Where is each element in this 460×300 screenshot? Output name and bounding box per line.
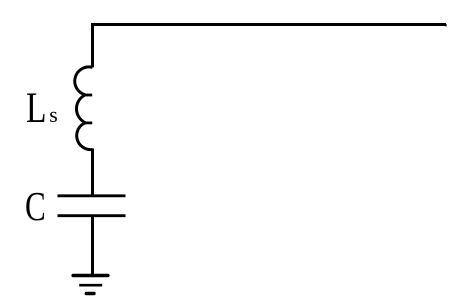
ground bar 2 [79, 284, 102, 287]
inductor Ls coil bump 1 [75, 67, 93, 95]
inductor coil tick 2 [85, 122, 92, 125]
label C [25, 186, 46, 227]
capacitor C bottom plate [58, 214, 126, 217]
inductor Ls coil bump 3 [77, 123, 93, 150]
inductor Ls coil bump 2 [76, 95, 85, 123]
inductor coil tick 1 [85, 94, 92, 97]
wire: inductor to capacitor [91, 149, 94, 196]
label s subscript of Ls [49, 105, 57, 127]
wire: top horizontal rail and drop to inductor [93, 25, 447, 68]
label L of Ls [26, 87, 46, 130]
wire: nub at right end of rail [445, 24, 447, 26]
wire: capacitor to ground [91, 216, 94, 275]
ground bar 3 [86, 292, 94, 295]
capacitor C top plate [58, 194, 126, 197]
ground bar 1 [73, 274, 108, 278]
